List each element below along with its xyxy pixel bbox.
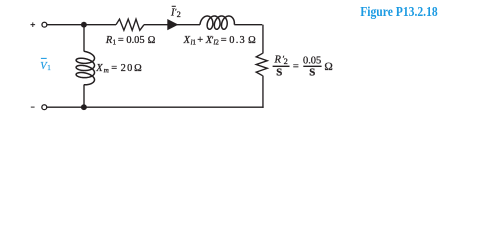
wire: top-left terminal to resistor R1	[47, 24, 116, 26]
svg-text:0.3: 0.3	[229, 35, 246, 46]
svg-text:=: =	[221, 35, 227, 46]
svg-text:X: X	[95, 63, 103, 74]
svg-text:2: 2	[215, 38, 219, 46]
plus sign of top terminal	[31, 22, 36, 27]
junction node at bottom of magnetizing branch	[81, 104, 87, 110]
svg-text:0.05: 0.05	[126, 35, 144, 46]
svg-text:=: =	[111, 63, 117, 74]
label Xm = 20 ohm	[95, 63, 142, 74]
svg-text:X: X	[205, 35, 213, 46]
svg-text:1: 1	[47, 64, 51, 72]
resistor R1 zigzag	[116, 19, 144, 30]
svg-text:=: =	[118, 35, 124, 46]
label R1 = 0.05 ohm	[105, 35, 156, 46]
svg-text:Figure P13.2.18: Figure P13.2.18	[360, 4, 438, 19]
svg-text:2: 2	[284, 57, 288, 66]
svg-text:0.05: 0.05	[303, 55, 321, 66]
label R'2/S = 0.05/S ohm (fractions)	[273, 54, 333, 78]
top-left terminal (open circle)	[42, 22, 47, 27]
bottom return wire	[47, 106, 264, 108]
label Xl1 + X'l2 = 0.3 ohm	[183, 35, 256, 46]
svg-text:+: +	[197, 35, 203, 46]
svg-text:Ω: Ω	[248, 35, 256, 46]
svg-text:m: m	[104, 66, 109, 74]
svg-text:R: R	[274, 54, 282, 65]
resistor R'2/S zigzag (vertical)	[256, 53, 267, 75]
wire: R1 to series inductor	[144, 24, 200, 26]
svg-text:S: S	[276, 67, 282, 79]
label current I'2 with macron	[170, 6, 181, 19]
svg-text:I: I	[170, 7, 175, 18]
label V1 phasor (blue, with macron)	[40, 58, 51, 72]
bottom-left terminal (open circle)	[42, 105, 47, 110]
minus sign of bottom terminal	[31, 106, 35, 108]
svg-text:1: 1	[192, 38, 196, 46]
wire: right vertical, corner down to resistor R'2/S	[262, 25, 264, 54]
svg-text:S: S	[309, 67, 315, 79]
svg-text:Ω: Ω	[134, 63, 142, 74]
wire: inductor to top-right corner	[234, 24, 262, 26]
wire: Xm coil down to bottom junction	[83, 85, 85, 108]
svg-text:=: =	[293, 62, 299, 73]
wire: resistor down to bottom-right corner	[262, 76, 264, 108]
wire: top junction down to Xm coil	[83, 25, 85, 52]
magnetizing inductor Xm (vertical coil)	[76, 51, 94, 85]
svg-text:2: 2	[177, 10, 181, 19]
junction node at top of magnetizing branch	[81, 22, 87, 28]
inductor Xl1 + X'l2 (series leakage reactance coil)	[200, 16, 234, 29]
svg-text:X: X	[183, 35, 191, 46]
current arrow for I'2	[167, 19, 178, 30]
svg-text:1: 1	[113, 38, 117, 46]
svg-text:Ω: Ω	[148, 35, 156, 46]
svg-text:20: 20	[121, 63, 134, 74]
svg-text:Ω: Ω	[324, 61, 333, 73]
